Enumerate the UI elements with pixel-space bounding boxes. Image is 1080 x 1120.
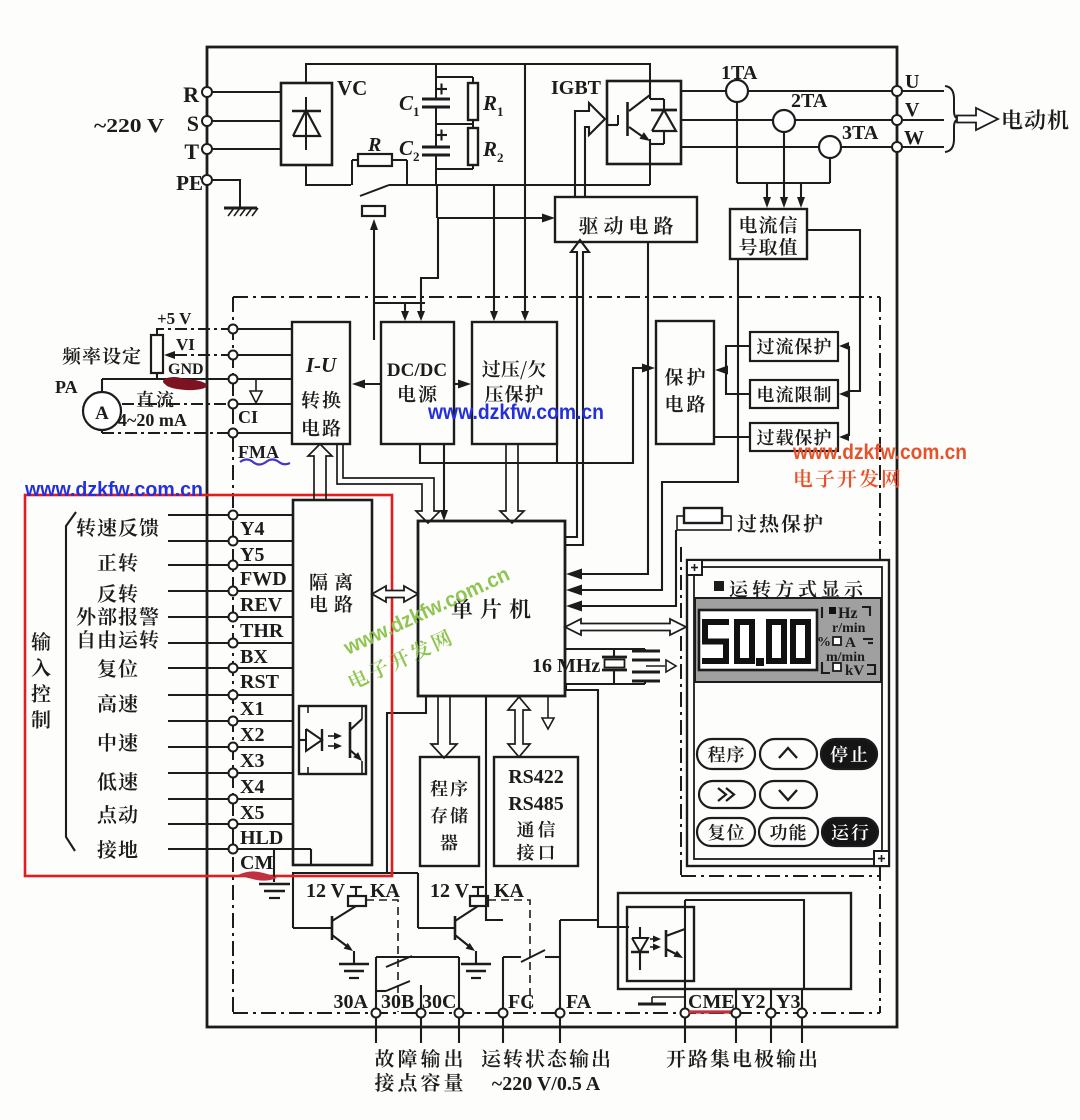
wire W <box>681 146 892 148</box>
label frequency setting <box>62 347 140 365</box>
crystal load caps <box>644 649 646 651</box>
thermal protector wire to MCU <box>572 530 676 606</box>
svg-text:2: 2 <box>497 150 504 165</box>
terminal +5V <box>229 325 238 334</box>
relay coil KA2 <box>470 896 488 906</box>
CT signal wires <box>736 102 738 183</box>
ground Q2 <box>461 963 491 966</box>
button down <box>760 781 817 808</box>
svg-text:3TA: 3TA <box>842 122 879 144</box>
svg-text:CME: CME <box>688 991 735 1013</box>
box DC/DC supply <box>381 322 454 444</box>
CM ground symbol <box>259 883 290 886</box>
optocoupler in isolation box <box>299 706 366 774</box>
button function <box>759 818 818 846</box>
svg-text:www.dzkfw.com.cn: www.dzkfw.com.cn <box>792 441 967 464</box>
svg-text:X4: X4 <box>240 776 264 798</box>
earth ground for PE <box>224 207 257 210</box>
svg-text:I-U: I-U <box>305 353 338 377</box>
control-circuit dash-dot boundary <box>233 296 880 298</box>
svg-text:12 V: 12 V <box>430 880 470 902</box>
svg-text:X5: X5 <box>240 802 264 824</box>
terminal FMA <box>229 429 238 438</box>
svg-text:CM: CM <box>240 852 273 874</box>
svg-text:GND: GND <box>168 361 204 378</box>
svg-text:30B: 30B <box>381 991 414 1013</box>
unit legend <box>829 607 836 614</box>
svg-text:A: A <box>845 635 856 651</box>
svg-text:S: S <box>187 111 199 136</box>
seven-seg digits 50.00 <box>702 619 729 625</box>
hollow arrow MCU to drive circuit <box>565 240 589 545</box>
bleeder resistor R2 <box>468 128 478 165</box>
wire CME collector line <box>684 900 686 1009</box>
svg-text:kV: kV <box>845 663 864 679</box>
potentiometer <box>151 335 163 373</box>
thermal actuator symbol <box>362 206 385 216</box>
node between C1 C2 <box>436 123 473 125</box>
ammeter PA <box>83 392 121 430</box>
hollow arrow drive to IGBT gate <box>575 103 605 196</box>
svg-text:FWD: FWD <box>240 568 287 590</box>
svg-text:1TA: 1TA <box>721 62 758 84</box>
svg-text:~220 V: ~220 V <box>94 115 165 137</box>
svg-text:KA: KA <box>370 880 401 902</box>
wire V <box>681 119 892 121</box>
inverter module IGBT <box>607 81 681 164</box>
input terminal circles and names <box>229 511 238 520</box>
green watermark rotated <box>340 563 514 660</box>
svg-text:30A: 30A <box>334 991 369 1013</box>
wire T <box>212 148 281 150</box>
caption run state output <box>482 1049 610 1068</box>
svg-text:Y2: Y2 <box>741 991 765 1013</box>
wire CM to ground <box>273 849 275 882</box>
svg-text:IGBT: IGBT <box>551 77 602 99</box>
svg-text:A: A <box>95 403 109 424</box>
svg-text:www.dzkfw.com.cn: www.dzkfw.com.cn <box>427 401 604 424</box>
wire MCU to relay transistors <box>293 696 426 928</box>
red pen mark under GND <box>165 378 208 391</box>
wire bus to OV/UV protect a <box>493 185 495 312</box>
rectifier bridge VC <box>281 83 332 165</box>
svg-text:VC: VC <box>337 76 367 100</box>
box current signal sampling <box>730 209 807 259</box>
wire GND <box>102 378 233 380</box>
button shift <box>699 781 755 808</box>
label DC 4-20mA <box>137 391 174 408</box>
panel corner ornament BR <box>874 851 889 866</box>
svg-text:PA: PA <box>55 377 78 397</box>
motor arrow <box>957 108 998 130</box>
svg-text:%: % <box>817 635 831 650</box>
terminal PE <box>202 175 212 185</box>
terminal GND <box>229 375 238 384</box>
input function labels <box>77 518 159 537</box>
button stop <box>821 739 877 769</box>
svg-text:T: T <box>184 139 199 164</box>
wire R <box>212 91 281 93</box>
svg-text:FC: FC <box>508 991 535 1013</box>
wire FMA <box>102 432 233 434</box>
small MCU output arrow down <box>547 696 549 718</box>
blue pen mark under FMA <box>240 460 290 465</box>
DC/DC low-voltage rail to protection circuit <box>420 368 647 463</box>
capacitor C1 <box>435 64 437 99</box>
box overload protection <box>750 423 838 451</box>
red pen mark under CM <box>238 871 277 880</box>
optocoupler 2 light arrows <box>650 938 656 940</box>
panel corner ornament TL <box>687 560 702 575</box>
label input control (vertical) <box>31 632 50 651</box>
KA2 linkage dashed <box>488 900 530 1012</box>
wiper wire VI <box>175 354 233 356</box>
bypass contactor switch <box>360 185 389 196</box>
charging resistor R <box>358 154 392 166</box>
svg-text:VI: VI <box>176 335 195 354</box>
terminal Y3 <box>767 1009 776 1018</box>
wire U <box>681 90 892 92</box>
svg-text:R: R <box>482 91 497 115</box>
hollow double arrow isolation-MCU <box>372 586 418 602</box>
input group brace <box>66 512 76 851</box>
panel title run mode display <box>714 581 724 591</box>
svg-text:Hz: Hz <box>838 605 858 622</box>
button reset <box>697 818 755 846</box>
drive feedback wire to MCU <box>572 242 648 574</box>
outer enclosure border <box>207 47 897 1027</box>
caption open collector output <box>667 1049 817 1068</box>
display window gray <box>695 598 881 682</box>
svg-text:REV: REV <box>240 594 283 616</box>
box program memory <box>420 757 479 866</box>
ground Q1 <box>339 963 369 966</box>
wire crystal net down to outputs <box>566 684 629 927</box>
svg-text:2TA: 2TA <box>791 90 828 112</box>
svg-text:THR: THR <box>240 620 284 642</box>
terminal V <box>892 115 902 125</box>
box isolation circuit <box>293 500 372 865</box>
svg-text:RST: RST <box>240 671 280 693</box>
cell dividers CME Y2 Y3 <box>735 989 737 1009</box>
box protection circuit <box>656 321 714 444</box>
terminal W <box>892 142 902 152</box>
chassis symbol near CME <box>652 996 685 998</box>
terminal S <box>202 116 212 126</box>
run contact group <box>502 957 504 1009</box>
svg-text:Y4: Y4 <box>240 518 264 540</box>
box I-U converter <box>292 322 350 444</box>
thermal protector <box>677 516 731 530</box>
optocoupler 2 LED <box>639 927 641 938</box>
svg-text:12 V: 12 V <box>306 880 346 902</box>
wire C-bus junction down to drive feed <box>436 185 438 218</box>
wire bus to DC/DC input a <box>404 303 406 312</box>
red highlight box <box>25 495 392 876</box>
button run <box>822 818 878 846</box>
svg-text:X3: X3 <box>240 750 264 772</box>
big hollow data arrow MCU to panel <box>565 619 686 635</box>
svg-text:1: 1 <box>497 104 504 119</box>
hollow arrow isolation to I-U <box>308 444 332 500</box>
terminal 30A <box>372 1009 381 1018</box>
label motor <box>1003 109 1068 130</box>
svg-text:r/min: r/min <box>832 621 866 636</box>
terminal Y2 <box>732 1009 741 1018</box>
svg-text:HLD: HLD <box>240 827 283 849</box>
drive power input arrow <box>437 217 546 219</box>
CT 2TA <box>773 110 795 132</box>
svg-text:X1: X1 <box>240 698 264 720</box>
wire CI <box>122 403 233 405</box>
wire CM into isolation box <box>293 848 311 850</box>
optocoupler 2 box <box>627 907 694 981</box>
terminal R <box>202 87 212 97</box>
svg-text:RS485: RS485 <box>508 793 564 815</box>
relay coil KA1 <box>348 896 366 906</box>
terminal VI <box>229 351 238 360</box>
box drive circuit <box>555 197 697 242</box>
seven-seg window <box>699 610 817 670</box>
svg-text:Y3: Y3 <box>776 991 800 1013</box>
svg-text:X2: X2 <box>240 724 264 746</box>
terminal 30C <box>455 1009 464 1018</box>
CT 3TA <box>819 136 841 158</box>
IGBT transistor symbol <box>607 124 618 126</box>
svg-text:2: 2 <box>413 149 420 164</box>
hollow arrow OV/UV to MCU <box>500 444 524 523</box>
wire MCU to fault contact <box>486 696 503 920</box>
red pen mark under CME <box>689 1010 731 1013</box>
svg-text:R: R <box>183 82 200 107</box>
terminal 30B <box>417 1009 426 1018</box>
fault contact group <box>375 957 377 1009</box>
svg-text:R: R <box>482 137 497 161</box>
box current limit <box>750 380 838 408</box>
svg-text:4~20 mA: 4~20 mA <box>118 410 187 430</box>
wire S <box>212 120 281 122</box>
operator panel outer frame <box>687 560 889 866</box>
freewheel diode in IGBT box <box>650 98 664 100</box>
svg-text:16 MHz: 16 MHz <box>532 655 600 677</box>
box overcurrent protection <box>750 332 838 361</box>
hollow double arrow MCU to comms <box>508 697 530 757</box>
terminal FA <box>556 1009 565 1018</box>
svg-text:CI: CI <box>238 407 258 427</box>
hollow arrow I-U to MCU <box>337 444 440 523</box>
capacitor C2 <box>435 107 437 147</box>
svg-text:RS422: RS422 <box>508 766 564 788</box>
terminal CME <box>681 1009 690 1018</box>
terminal aux <box>798 1009 807 1018</box>
CT 1TA <box>726 80 748 102</box>
caption fault output <box>375 1049 462 1068</box>
svg-text:www.dzkfw.com.cn: www.dzkfw.com.cn <box>24 479 203 501</box>
wire bus to DC/DC input b <box>421 218 438 312</box>
KA1 linkage dashed <box>366 900 398 1012</box>
terminal CI <box>229 400 238 409</box>
svg-text:~220 V/0.5 A: ~220 V/0.5 A <box>492 1073 601 1095</box>
DC bus top wire <box>306 64 650 83</box>
optocoupler 2 transistor <box>665 930 668 957</box>
terminal FC <box>499 1009 508 1018</box>
svg-text:KA: KA <box>494 880 525 902</box>
display-panel dash-dot boundary <box>680 547 682 618</box>
svg-text:C: C <box>399 91 414 115</box>
box MCU single-chip computer <box>418 521 565 696</box>
input wires from labels to terminals <box>168 514 229 516</box>
sampling output wires <box>807 230 860 391</box>
svg-text:BX: BX <box>240 646 268 668</box>
svg-text:PE: PE <box>176 171 203 195</box>
svg-text:W: W <box>904 127 924 149</box>
wire PE <box>212 180 240 207</box>
bleeder resistor R1 <box>436 76 473 78</box>
wire DC/DC to MCU <box>443 444 445 512</box>
svg-text:Y5: Y5 <box>240 544 264 566</box>
svg-text:V: V <box>905 99 920 121</box>
button up <box>760 739 817 769</box>
svg-text:+5 V: +5 V <box>157 309 192 328</box>
small ground arrow under GND wire <box>255 379 257 391</box>
box OV/UV protection <box>472 322 557 444</box>
transistor Q1 <box>331 916 334 940</box>
contactor control wire with up arrow <box>373 230 375 340</box>
hollow arrow MCU to program memory <box>431 696 457 758</box>
arrow DC/DC to I-U <box>360 383 381 385</box>
wires terminals to I-U box <box>238 328 292 330</box>
terminal T <box>202 144 212 154</box>
svg-text:1: 1 <box>413 104 420 119</box>
contact blade 1 <box>386 956 412 967</box>
svg-text:DC/DC: DC/DC <box>387 360 447 381</box>
svg-text:30C: 30C <box>422 991 456 1013</box>
svg-text:FA: FA <box>566 991 592 1013</box>
right rail arrows into protect boxes <box>846 345 849 347</box>
contact blade FC <box>521 950 545 962</box>
wires to motor <box>902 90 944 92</box>
arrow DC/DC to OV/UV <box>454 383 463 385</box>
svg-text:U: U <box>905 71 919 93</box>
contact blade 2 <box>376 990 386 992</box>
svg-text:C: C <box>399 136 414 160</box>
gathering brace <box>945 86 960 152</box>
button program <box>697 739 755 769</box>
svg-text:R: R <box>367 134 381 156</box>
wires protect boxes to protection circuit <box>726 346 750 394</box>
terminal U <box>892 86 902 96</box>
transistor Q2 <box>454 916 457 940</box>
wire bus to OV/UV protect b <box>524 64 526 312</box>
box open-collector outputs <box>618 893 851 989</box>
box RS422/RS485 comms interface <box>494 757 578 866</box>
DC bus bottom wire <box>306 165 351 185</box>
